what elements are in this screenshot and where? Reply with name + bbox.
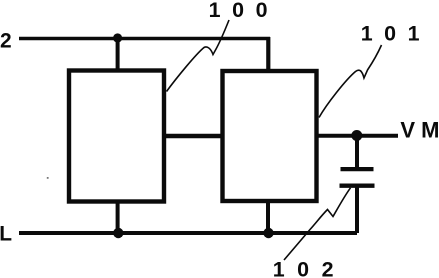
node: junction dot on VM wire bbox=[351, 130, 362, 141]
capacitor 102 top plate bbox=[341, 167, 374, 171]
leader line for label 101 bbox=[319, 45, 382, 118]
wire: bottom horizontal rail from terminal L bbox=[19, 231, 357, 235]
wire: stub from block 101 bottom to bottom rail bbox=[266, 201, 270, 233]
svg-text:100: 100 bbox=[209, 0, 280, 22]
wire: connector between block 100 and block 101 bbox=[164, 134, 222, 138]
dust speck bbox=[47, 177, 49, 179]
node: junction dot on top wire above block 100 bbox=[113, 33, 122, 42]
wire: output to VM from block 101 right side bbox=[317, 134, 399, 138]
svg-text:V M: V M bbox=[400, 117, 439, 142]
leader line for label 100 bbox=[167, 20, 230, 92]
wire: top horizontal from terminal 2 bbox=[19, 37, 270, 41]
node: junction dot bottom rail under block 101 bbox=[263, 228, 273, 238]
wire: vertical drop into block 101 top bbox=[266, 37, 270, 70]
wire: capacitor top lead from VM node bbox=[355, 136, 359, 168]
node: junction dot bottom rail under block 100 bbox=[113, 228, 123, 238]
capacitor 102 bottom plate bbox=[340, 183, 375, 187]
svg-text:101: 101 bbox=[361, 21, 432, 45]
wire: stub from block 100 bottom to bottom rail bbox=[116, 202, 120, 233]
svg-text:102: 102 bbox=[273, 257, 347, 278]
block 101 (right box) bbox=[223, 71, 317, 201]
svg-text:L: L bbox=[0, 222, 12, 245]
svg-text:2: 2 bbox=[0, 29, 12, 52]
wire: capacitor bottom lead down to bottom rail bbox=[355, 186, 359, 233]
wire: stub from top wire into block 100 top bbox=[116, 38, 120, 70]
block 100 (left box) bbox=[69, 71, 164, 202]
leader line for label 102 bbox=[284, 188, 351, 260]
